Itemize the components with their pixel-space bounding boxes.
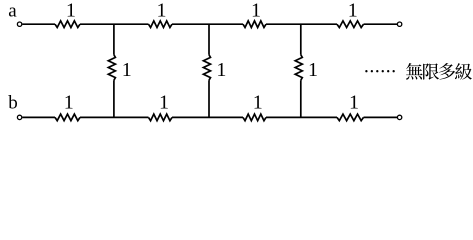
resistor bottom R8 value 1	[337, 114, 364, 121]
wire node 3 down to shunt resistor	[300, 24, 302, 55]
wire a to R1 top rail	[22, 23, 55, 25]
svg-text:1: 1	[122, 59, 132, 81]
resistor top R3 value 1	[243, 21, 266, 28]
resistor bottom R7 value 1	[243, 114, 266, 121]
svg-text:1: 1	[251, 0, 261, 22]
svg-text:1: 1	[66, 0, 76, 22]
wire R8 to right terminal bottom rail	[364, 116, 398, 118]
svg-text:1: 1	[157, 0, 167, 22]
right bottom terminal (open circle)	[397, 115, 401, 119]
text char 多	[439, 63, 455, 80]
svg-text:1: 1	[348, 0, 358, 22]
shunt resistor R11 value 1	[295, 55, 302, 80]
svg-text:1: 1	[308, 59, 318, 81]
wire R2 to R3 (node 2) top rail	[172, 23, 243, 25]
svg-text:b: b	[8, 93, 17, 114]
wire R1 to R2 (node 1) top rail	[80, 23, 149, 25]
right top terminal (open circle)	[397, 22, 401, 26]
shunt resistor R10 value 1	[203, 55, 210, 80]
svg-text:1: 1	[159, 92, 169, 114]
wire node 1 down to shunt resistor	[113, 24, 115, 55]
text char 級	[455, 63, 472, 80]
svg-text:1: 1	[253, 92, 263, 114]
svg-text:1: 1	[64, 92, 74, 114]
resistor bottom R5 value 1	[55, 114, 80, 121]
svg-text:1: 1	[216, 59, 226, 81]
svg-text:1: 1	[349, 92, 359, 114]
wire shunt resistor R10 down to bottom rail	[208, 80, 210, 117]
text char 限	[423, 63, 439, 79]
wire R3 to R4 (node 3) top rail	[266, 23, 337, 25]
resistor top R1 value 1	[55, 21, 80, 28]
svg-text:a: a	[8, 0, 17, 21]
wire R5 to R6 (node 4) bottom rail	[80, 116, 149, 118]
resistor bottom R6 value 1	[149, 114, 173, 121]
wire R4 to right terminal top rail	[364, 23, 398, 25]
wire R7 to R8 (node 6) bottom rail	[266, 116, 337, 118]
terminal b (open circle)	[17, 115, 21, 119]
text char 無	[406, 63, 423, 80]
wire b to R5 bottom rail	[22, 116, 55, 118]
ellipsis dots (continuation)	[365, 70, 395, 72]
wire node 2 down to shunt resistor	[208, 24, 210, 55]
resistor top R2 value 1	[149, 21, 173, 28]
terminal a (open circle)	[17, 22, 21, 26]
resistor top R4 value 1	[337, 21, 364, 28]
shunt resistor R9 value 1	[108, 55, 115, 80]
wire shunt resistor R9 down to bottom rail	[113, 80, 115, 117]
wire R6 to R7 (node 5) bottom rail	[172, 116, 243, 118]
wire shunt resistor R11 down to bottom rail	[300, 80, 302, 117]
